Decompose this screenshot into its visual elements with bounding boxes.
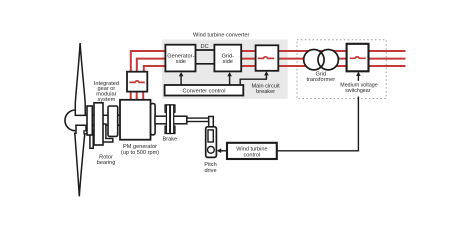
svg-text:bearing: bearing [97, 160, 116, 166]
svg-text:switchgear: switchgear [345, 88, 371, 94]
svg-text:side: side [176, 59, 186, 65]
svg-text:drive: drive [204, 168, 216, 174]
svg-text:transformer: transformer [306, 77, 335, 83]
svg-text:breaker: breaker [256, 89, 275, 95]
svg-text:(up to 500 rpm): (up to 500 rpm) [121, 150, 159, 156]
svg-text:system: system [98, 97, 116, 103]
svg-text:Wind turbine converter: Wind turbine converter [193, 33, 249, 39]
svg-text:Brake: Brake [162, 136, 177, 142]
svg-text:DC: DC [201, 44, 209, 50]
svg-text:Converter control: Converter control [183, 88, 226, 94]
svg-text:side: side [223, 59, 233, 65]
svg-text:control: control [244, 153, 261, 159]
